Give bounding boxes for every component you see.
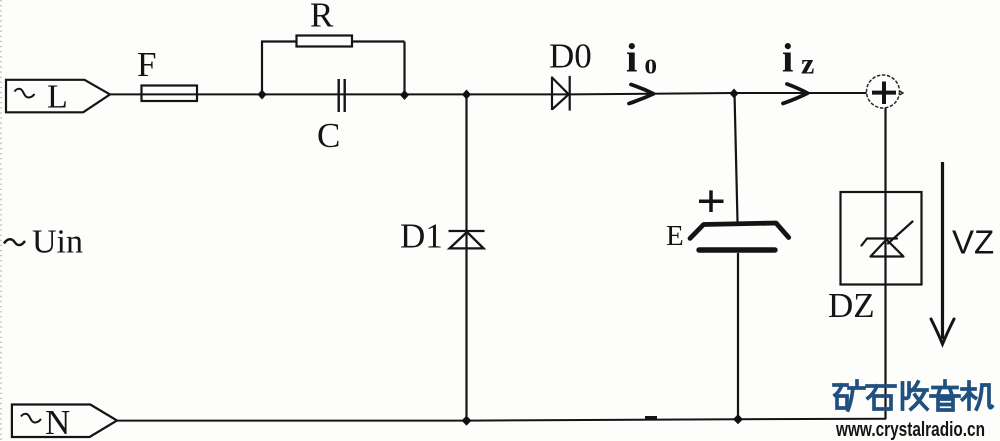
svg-text:E: E: [666, 220, 684, 252]
svg-text:N: N: [45, 403, 70, 441]
tilde in N tag: [21, 414, 41, 423]
connector tag N: [12, 405, 117, 438]
node A junction dot: [258, 90, 267, 100]
svg-text:Uin: Uin: [32, 224, 83, 261]
small dash artifact on bottom wire: [645, 416, 657, 420]
node C junction dot (D1 branch top): [462, 90, 471, 100]
node: bottom junction E: [733, 414, 743, 424]
watermark chinese characters: [834, 381, 992, 410]
char yin: [931, 381, 959, 410]
capacitor E bottom plate: [699, 247, 775, 252]
wire: R branch right vertical: [403, 42, 405, 96]
zener diode DZ symbol: [862, 222, 913, 257]
node B junction dot: [400, 90, 409, 100]
tilde in L tag: [15, 89, 35, 98]
char shou: [903, 382, 928, 409]
wire: E branch bottom: [737, 253, 739, 419]
wire: R branch top right: [352, 40, 405, 42]
diode D1: [449, 231, 485, 248]
svg-text:C: C: [317, 116, 340, 155]
zener box DZ: [841, 192, 922, 285]
svg-text:z: z: [801, 48, 814, 81]
diode D0: [552, 76, 570, 111]
svg-text:R: R: [310, 0, 334, 35]
svg-text:F: F: [137, 45, 156, 84]
wire: R branch top left: [261, 40, 297, 42]
fuse F: [142, 86, 198, 102]
wire: D1 branch vertical: [465, 94, 467, 420]
connector tag L: [6, 80, 110, 113]
arrow iz: [783, 84, 808, 103]
capacitor E top plate: [690, 223, 789, 238]
svg-text:www.crystalradio.cn: www.crystalradio.cn: [835, 419, 985, 441]
terminal plus circle: [867, 75, 900, 108]
char shi: [867, 386, 895, 409]
wire: below plus circle down to bottom: [884, 108, 886, 419]
node: bottom junction D1: [462, 416, 472, 426]
wire: top main: [110, 93, 867, 94]
svg-text:VZ: VZ: [952, 224, 994, 261]
plus sign of E: [699, 190, 724, 212]
wire: bottom main: [117, 419, 886, 421]
svg-text:D0: D0: [549, 37, 592, 76]
svg-text:i: i: [782, 35, 793, 81]
wire: E branch top: [735, 93, 738, 222]
svg-text:0: 0: [645, 55, 658, 79]
label ~Uin: [4, 239, 25, 245]
svg-text:DZ: DZ: [828, 286, 875, 325]
svg-text:i: i: [626, 35, 637, 81]
char ji: [962, 382, 992, 409]
char kuang: [834, 381, 864, 410]
resistor R: [297, 36, 353, 47]
arrow VZ: [941, 162, 944, 339]
left edge dotted border: [0, 0, 2, 441]
capacitor C plates: [338, 79, 340, 112]
wire: R branch left vertical: [261, 42, 263, 95]
arrow i0: [629, 85, 654, 104]
svg-text:D1: D1: [400, 217, 443, 256]
svg-text:L: L: [47, 79, 68, 116]
node D junction dot: [730, 89, 739, 99]
